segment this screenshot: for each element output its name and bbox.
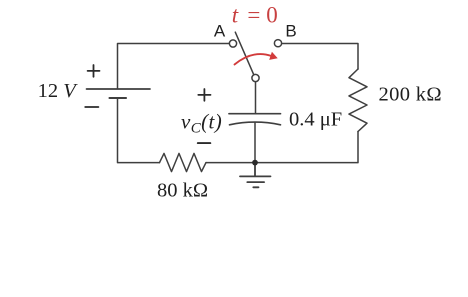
wire capacitor top branch <box>255 82 257 114</box>
capacitor minus sign <box>198 142 211 144</box>
switch pivot circle <box>252 74 259 81</box>
svg-text:0: 0 <box>266 3 278 28</box>
wire left vertical below battery <box>118 98 160 163</box>
svg-text:200 kΩ: 200 kΩ <box>379 83 442 105</box>
battery V1 short plate <box>110 97 127 99</box>
svg-text:12 V: 12 V <box>38 80 79 102</box>
svg-text:B: B <box>285 22 296 41</box>
switch contact A circle <box>229 40 236 47</box>
resistor R 80 kOhm zigzag <box>160 153 207 171</box>
capacitor plus sign <box>198 89 210 101</box>
capacitor C curved plate <box>230 122 281 125</box>
ground symbol <box>240 163 271 188</box>
switch contact B circle <box>274 40 281 47</box>
battery plus sign <box>88 65 100 77</box>
svg-text:80 kΩ: 80 kΩ <box>157 179 208 201</box>
wire top-left segment <box>118 44 230 89</box>
node junction dot <box>252 160 258 166</box>
svg-text:vC(t): vC(t) <box>181 110 222 137</box>
red arrow t=0 sweep <box>235 54 272 64</box>
wire top-right segment <box>282 44 358 70</box>
svg-text:A: A <box>214 22 226 41</box>
svg-text:0.4 μF: 0.4 μF <box>289 108 342 130</box>
resistor R 200 kOhm zigzag <box>349 69 367 132</box>
svg-text:=: = <box>247 3 260 28</box>
switch blade <box>235 32 253 74</box>
wire bottom from resistor to right <box>206 132 358 163</box>
capacitor C top plate <box>229 113 281 115</box>
svg-text:t: t <box>232 3 239 28</box>
wire capacitor bottom branch <box>254 123 256 163</box>
battery minus sign <box>85 106 98 108</box>
battery V1 long plate <box>87 88 151 90</box>
